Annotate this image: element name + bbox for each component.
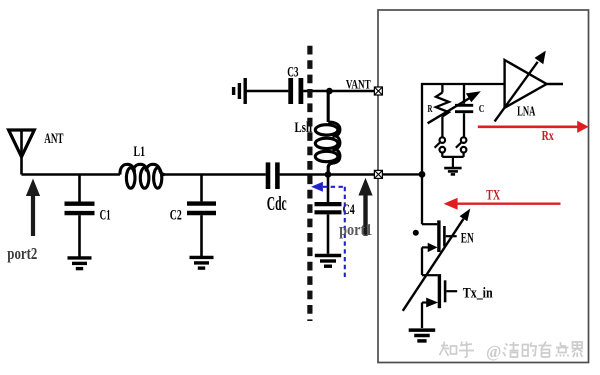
svg-text:VANT: VANT [346,77,371,91]
wire C3 left [247,90,289,93]
node dot (near Q1) [413,230,419,236]
watermark 知乎 @活的有点累 [440,342,583,358]
port symbol (VANT) [374,87,382,95]
module box [378,10,589,363]
transistor Q2 Tx_in [422,274,457,328]
svg-text:Tx_in: Tx_in [463,285,494,301]
ground (switches) [444,168,461,174]
blue dashed arrow (left) [311,182,323,192]
transistor Q1 EN [422,220,457,275]
blue dashed line (down) [344,187,346,280]
inductor L1 [120,164,165,188]
ground (transistors) [409,330,436,341]
dashed boundary line (black) [307,46,312,321]
port1 arrow [358,178,372,236]
wire Cdc to port1 symbol [280,173,375,176]
Rx arrow (red) [478,126,578,129]
wire antenna to L1 [22,173,120,176]
capacitor C (tunable) [455,84,473,138]
svg-text:R: R [428,104,434,115]
node VANT junction dot [326,88,333,95]
node junction dot (main line / Lsh / C4) [325,171,332,178]
switch (under R) [435,137,446,157]
capacitor C2 [187,175,216,256]
wire C3 right to VANT port [303,90,374,93]
ground (C3 left, rotated) [234,78,246,104]
node junction dot (box) [419,171,426,178]
svg-text:TX: TX [486,188,500,204]
capacitor C4 [315,176,342,254]
svg-text:EN: EN [461,231,474,247]
port2 arrow [26,179,40,237]
wire vertical main (box) [421,83,423,224]
svg-text:ANT: ANT [44,131,63,147]
tuning arrow (LNA) [495,62,538,122]
ground (C4) [315,256,341,267]
tuning arrow (R C) [428,98,470,123]
svg-text:C: C [479,103,485,115]
svg-text:port2: port2 [7,244,37,263]
resistor R (tunable) [436,84,449,138]
capacitor Cdc (series) [268,162,277,189]
svg-text:C2: C2 [170,207,182,224]
TX arrow (red) [457,202,561,204]
wire port symbol to node A [382,173,422,175]
svg-text:Rx: Rx [542,129,554,144]
port symbol (main) [374,170,382,178]
wire L1 to Cdc [165,173,266,176]
svg-text:@: @ [486,342,501,361]
capacitor C3 [291,78,301,104]
svg-text:Cdc: Cdc [267,193,287,215]
svg-text:LNA: LNA [517,104,536,119]
svg-text:C1: C1 [100,208,111,224]
wire switch common [442,157,463,167]
capacitor C1 [65,175,95,257]
op-amp LNA (variable gain) [505,60,563,108]
ground (C2) [190,257,214,268]
svg-text:port1: port1 [339,220,372,239]
wire top (box) [422,83,505,85]
svg-text:L1: L1 [134,144,146,160]
tuning arrow (Q1 Q2) [403,219,464,311]
ground (C1) [68,258,92,269]
antenna ANT [9,130,35,175]
switch (under C) [456,137,467,157]
inductor Lsh [315,91,340,175]
svg-text:C3: C3 [287,63,299,80]
